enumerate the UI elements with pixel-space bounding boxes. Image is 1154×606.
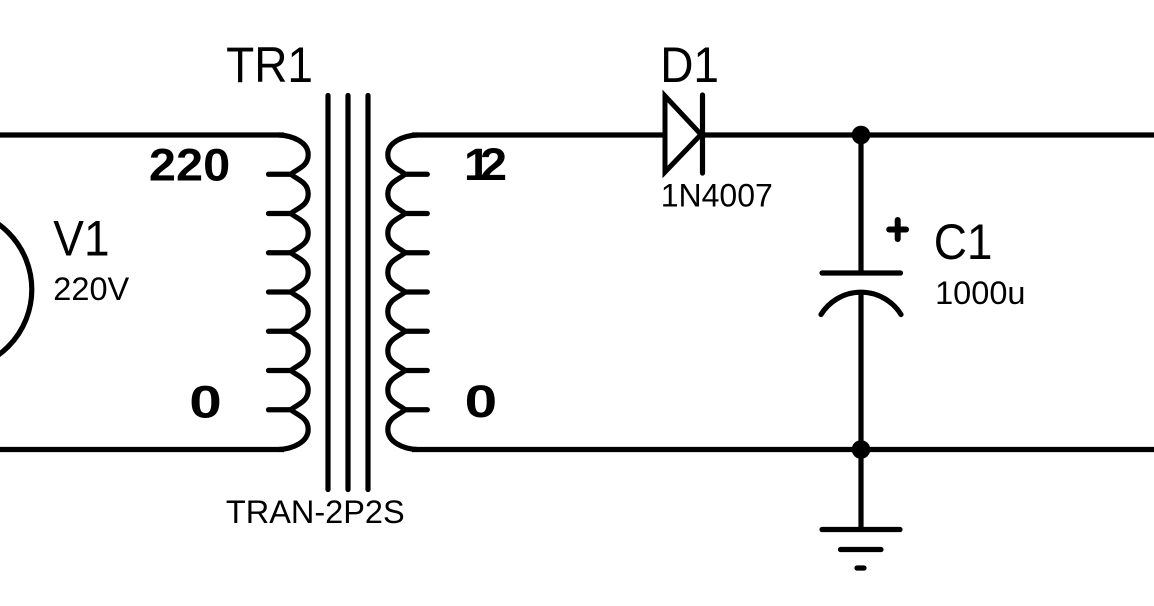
svg-text:TRAN-2P2S: TRAN-2P2S <box>226 494 405 530</box>
svg-text:220: 220 <box>149 140 230 190</box>
svg-text:D1: D1 <box>660 38 719 93</box>
svg-text:220V: 220V <box>53 271 129 307</box>
svg-text:0: 0 <box>189 378 222 428</box>
svg-text:C1: C1 <box>934 215 993 270</box>
svg-text:TR1: TR1 <box>226 38 313 93</box>
svg-text:1000u: 1000u <box>935 275 1025 311</box>
svg-text:0: 0 <box>465 377 498 427</box>
svg-text:V1: V1 <box>53 212 109 267</box>
svg-text:12: 12 <box>464 140 507 190</box>
svg-text:1N4007: 1N4007 <box>661 178 773 214</box>
